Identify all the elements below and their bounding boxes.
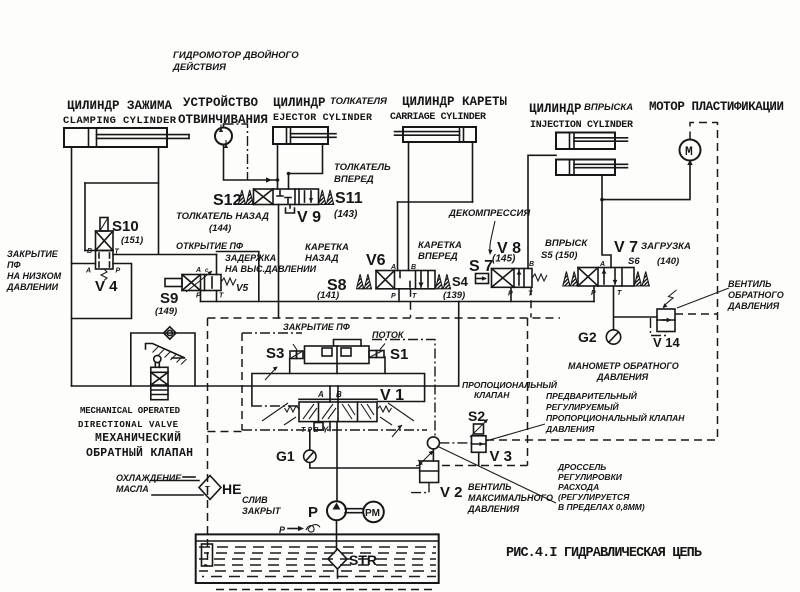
svg-text:ДРОССЕЛЬ: ДРОССЕЛЬ	[557, 462, 606, 472]
svg-text:КЛАПАН: КЛАПАН	[474, 390, 510, 400]
label: манометр обратного давления	[568, 361, 679, 382]
wire: pilot center drain	[336, 364, 338, 374]
svg-text:ЗАКРЫТИЕ: ЗАКРЫТИЕ	[7, 249, 59, 259]
svg-text:ПРОПОЦИОНАЛЬНЫЙ: ПРОПОЦИОНАЛЬНЫЙ	[462, 379, 558, 390]
svg-text:S10: S10	[112, 218, 139, 235]
svg-text:ПОТОК: ПОТОК	[372, 330, 405, 340]
svg-text:S2: S2	[468, 408, 485, 424]
wire: V4 B to frame	[85, 250, 96, 252]
motor M circle	[680, 140, 701, 161]
wire: riser joining P line to V1 line	[458, 302, 460, 387]
svg-text:B: B	[314, 427, 319, 434]
svg-text:A: A	[599, 261, 605, 268]
svg-text:НА НИЗКОМ: НА НИЗКОМ	[7, 271, 62, 281]
label: каретка назад	[305, 242, 349, 264]
throttle slash on drain dash-dot	[392, 425, 402, 437]
gauge G1	[304, 450, 316, 462]
pilot valve body	[305, 346, 370, 364]
svg-text:ВПЕРЕД: ВПЕРЕД	[418, 251, 458, 262]
svg-text:ЦИЛИНДР: ЦИЛИНДР	[529, 102, 582, 116]
svg-text:В ПРЕДЕЛАХ 0,8ММ): В ПРЕДЕЛАХ 0,8ММ)	[558, 502, 645, 512]
hydromotor circle	[215, 125, 232, 149]
svg-text:МАНОМЕТР ОБРАТНОГО: МАНОМЕТР ОБРАТНОГО	[568, 361, 679, 371]
svg-text:A: A	[85, 268, 91, 275]
svg-text:НА ВЫС.ДАВЛЕНИИ: НА ВЫС.ДАВЛЕНИИ	[225, 264, 317, 274]
label: толкатель вперед	[334, 162, 391, 185]
label: декомпрессия with arrow	[448, 208, 531, 255]
tank liquid dashes	[199, 547, 436, 577]
wire: V8 P riser	[510, 287, 512, 301]
solenoid S4 hatched	[436, 274, 451, 289]
svg-text:B: B	[529, 261, 534, 268]
label: слив закрыт	[242, 495, 282, 516]
wire: V4 T line to V5	[113, 254, 217, 256]
svg-text:ЗАКРЫТ: ЗАКРЫТ	[242, 506, 282, 516]
svg-text:(141): (141)	[317, 290, 339, 301]
svg-text:A: A	[317, 390, 324, 399]
labels S3 S1	[266, 345, 408, 363]
svg-text:B: B	[87, 248, 92, 255]
wire: V7 P riser	[593, 286, 595, 302]
svg-text:(РЕГУЛИРУЕТСЯ: (РЕГУЛИРУЕТСЯ	[558, 492, 630, 502]
svg-text:ЗАГРУЗКА: ЗАГРУЗКА	[641, 241, 691, 252]
svg-text:ЗАДЕРЖКА: ЗАДЕРЖКА	[225, 253, 276, 263]
svg-text:STR: STR	[349, 552, 377, 568]
svg-text:РАСХОДА: РАСХОДА	[558, 482, 599, 492]
svg-text:MECHANICAL OPERATED: MECHANICAL OPERATED	[80, 406, 181, 416]
svg-text:ВПРЫСК: ВПРЫСК	[545, 238, 588, 249]
svg-text:V 9: V 9	[297, 209, 321, 226]
svg-text:ДАВЛЕНИЯ: ДАВЛЕНИЯ	[545, 424, 595, 434]
svg-text:(140): (140)	[657, 256, 679, 267]
mech valve stack	[151, 367, 168, 399]
label: дроссель регулировки расхода	[557, 462, 645, 512]
svg-text:T: T	[219, 293, 224, 300]
label: охлаждение масла	[116, 473, 182, 494]
label: цилиндр толкателя / ejector cylinder	[273, 96, 388, 124]
wire: motor top dash-dot line	[224, 124, 248, 180]
svg-text:ЦИЛИНДР: ЦИЛИНДР	[273, 96, 326, 110]
svg-text:СЛИВ: СЛИВ	[242, 495, 268, 505]
svg-text:EJECTOR CYLINDER: EJECTOR CYLINDER	[273, 113, 372, 124]
leader line V3 to предварительный text	[486, 424, 545, 441]
svg-text:S4: S4	[452, 274, 469, 289]
wire: V5 bypass loop	[217, 252, 259, 302]
port labels B T A P of V4	[85, 248, 121, 275]
V2 drain dash-dot	[411, 483, 429, 493]
pump P	[327, 501, 346, 520]
svg-text:INJECTION CYLINDER: INJECTION CYLINDER	[530, 120, 633, 131]
svg-text:ДЕКОМПРЕССИЯ: ДЕКОМПРЕССИЯ	[448, 208, 531, 219]
поток bracket over pilot	[334, 340, 362, 347]
svg-text:(149): (149)	[155, 306, 177, 317]
svg-text:РЕГУЛИРОВКИ: РЕГУЛИРОВКИ	[558, 472, 623, 482]
svg-text:(151): (151)	[121, 235, 143, 246]
svg-text:(143): (143)	[334, 209, 358, 220]
label: цилиндр кареты / carriage cylinder	[390, 95, 508, 123]
clamping cylinder piston rod	[97, 135, 190, 139]
ejector cylinder body	[273, 127, 336, 144]
svg-text:ЦИЛИНДР ЗАЖИМА: ЦИЛИНДР ЗАЖИМА	[67, 99, 173, 113]
svg-text:МАСЛА: МАСЛА	[116, 484, 149, 494]
svg-text:P: P	[308, 504, 318, 521]
dashed manifold left edge	[207, 318, 209, 566]
svg-text:P: P	[391, 293, 396, 300]
svg-text:V 1: V 1	[380, 387, 404, 404]
carriage mount frame	[398, 142, 473, 271]
svg-text:S5 (150): S5 (150)	[541, 250, 577, 261]
labels V7 S6 (140) загрузка впрыск S5 (150)	[541, 238, 691, 297]
wire: A/B line to proportional valve	[72, 385, 459, 387]
tank weir box	[202, 544, 213, 566]
svg-text:ВПРЫСКА: ВПРЫСКА	[584, 102, 633, 113]
clamping cylinder body	[64, 128, 167, 147]
ground dashes below tank	[216, 589, 437, 591]
label: гидромотор двойного действия	[172, 49, 299, 73]
svg-text:КАРЕТКА: КАРЕТКА	[418, 240, 462, 251]
wire: V6 T riser dashed	[410, 289, 412, 318]
valve V1 body	[299, 402, 377, 422]
wire: pump suction	[336, 520, 338, 549]
svg-text:Т: Т	[205, 485, 210, 494]
injection cylinder upper	[556, 133, 628, 150]
solenoid S7	[476, 274, 489, 284]
svg-text:ТОЛКАТЕЛЬ НАЗАД: ТОЛКАТЕЛЬ НАЗАД	[176, 211, 269, 222]
V1 bottom port box TPBY	[301, 423, 330, 435]
label: вентиль обратного давления	[727, 279, 784, 311]
svg-text:T: T	[617, 290, 622, 297]
svg-text:V 4: V 4	[95, 278, 118, 295]
roller plunger	[154, 355, 161, 367]
V1 top cap line	[299, 398, 377, 400]
wire: main pressure line P	[201, 301, 595, 303]
wire: V1 P riser to pump	[336, 422, 338, 502]
svg-text:ПРЕДВАРИТЕЛЬНЫЙ: ПРЕДВАРИТЕЛЬНЫЙ	[546, 390, 638, 401]
V2 body	[420, 461, 439, 483]
dashed jog at manifold left	[208, 431, 243, 433]
solenoid S12 hatched	[238, 190, 253, 205]
label S10 (151) V4	[95, 218, 143, 295]
leader line to вентиль обратного давления	[677, 288, 729, 308]
svg-text:T: T	[412, 293, 417, 300]
label: закрытие ПФ на низком давлении	[6, 249, 62, 292]
label: пропоциональный клапан	[462, 379, 558, 400]
labels S7 V8 (145) ports	[469, 240, 534, 298]
label: цилиндр зажима / clamping cylinder	[63, 99, 177, 127]
svg-text:S1: S1	[390, 346, 408, 363]
valve V8 spring	[532, 274, 547, 281]
svg-text:РЕГУЛИРУЕМЫЙ: РЕГУЛИРУЕМЫЙ	[546, 401, 620, 412]
leader line V2 to дроссель text	[437, 446, 556, 503]
valve V4 spring	[101, 269, 107, 281]
V1 springs	[262, 403, 414, 425]
svg-text:ТОЛКАТЕЛЬ: ТОЛКАТЕЛЬ	[334, 162, 391, 173]
svg-text:B: B	[336, 390, 342, 399]
dashed drain line to V2	[442, 465, 528, 467]
solenoid S1	[369, 344, 385, 358]
motor PM	[363, 502, 384, 523]
svg-text:S3: S3	[266, 345, 284, 362]
solenoid S5 hatched	[563, 272, 578, 287]
svg-text:ОБРАТНОГО: ОБРАТНОГО	[728, 290, 784, 300]
clamping cylinder frame box	[72, 147, 159, 386]
valve V5 spring	[221, 278, 236, 285]
label: механический обратный клапан	[86, 431, 193, 460]
wire: pilot left foot with throttle	[252, 359, 385, 406]
solenoid S2	[470, 419, 488, 437]
wire: branch to motor	[602, 162, 690, 200]
label: mechanical operated directional valve	[78, 406, 181, 430]
tank symbol below V9	[286, 205, 295, 214]
wire: V8 B riser to injection cylinder	[528, 155, 556, 268]
svg-text:ДАВЛЕНИЯ: ДАВЛЕНИЯ	[727, 301, 780, 311]
svg-text:НАЗАД: НАЗАД	[305, 253, 339, 264]
svg-text:ВЕНТИЛЬ: ВЕНТИЛЬ	[728, 279, 772, 289]
label: цилиндр впрыска / injection cylinder	[529, 102, 633, 131]
svg-text:M: M	[685, 144, 693, 159]
check valve diamond	[164, 327, 176, 339]
labels S9 (149) V5 and ports	[155, 267, 249, 317]
dashed manifold right edge	[527, 318, 529, 466]
solenoid S8 hatched	[357, 274, 372, 289]
wire: V1 T drain to gauge G1	[309, 430, 311, 450]
svg-text:(144): (144)	[209, 223, 231, 234]
svg-text:V 7: V 7	[614, 239, 638, 256]
svg-text:ДЕЙСТВИЯ: ДЕЙСТВИЯ	[172, 61, 227, 73]
label: задержка на выс.давлении	[225, 253, 317, 274]
V2 pilot circle	[427, 437, 439, 461]
svg-text:CLAMPING CYLINDER: CLAMPING CYLINDER	[63, 115, 177, 127]
svg-text:P: P	[116, 268, 121, 275]
svg-text:G2: G2	[578, 329, 597, 345]
svg-text:ГИДРОМОТОР ДВОЙНОГО: ГИДРОМОТОР ДВОЙНОГО	[173, 49, 299, 61]
tank rectangle	[196, 534, 439, 583]
svg-text:ДАВЛЕНИЯ: ДАВЛЕНИЯ	[596, 372, 649, 382]
labels S12 V9 S11 (143)	[213, 190, 363, 226]
svg-text:G1: G1	[276, 448, 295, 464]
labels V6 S8 (141) S4 (139)	[317, 252, 469, 301]
svg-text:РИС.4.I ГИДРАВЛИЧЕСКАЯ ЦЕПЬ: РИС.4.I ГИДРАВЛИЧЕСКАЯ ЦЕПЬ	[506, 546, 702, 561]
svg-text:ТОЛКАТЕЛЯ: ТОЛКАТЕЛЯ	[330, 96, 388, 107]
wire: cooler inlet/outlet	[152, 477, 203, 495]
svg-text:B: B	[411, 264, 416, 271]
wire: G1 to V2 line	[310, 463, 420, 469]
coupling shaft	[345, 509, 363, 513]
wire: injection bottom riser to V7	[602, 175, 611, 268]
carriage cylinder body	[395, 127, 477, 142]
wire: V4 P loop	[72, 264, 132, 319]
dash-dot link to V3	[439, 442, 471, 444]
svg-text:УСТРОЙСТВО: УСТРОЙСТВО	[183, 95, 259, 110]
svg-text:ЗАКРЫТИЕ ПФ: ЗАКРЫТИЕ ПФ	[283, 322, 350, 332]
svg-text:ВЕНТИЛЬ: ВЕНТИЛЬ	[468, 482, 512, 492]
wire: pilot right foot	[378, 357, 425, 402]
label: вентиль максимального давления	[467, 482, 553, 514]
svg-text:CARRIAGE CYLINDER: CARRIAGE CYLINDER	[390, 112, 486, 123]
cooler HE diamond	[199, 476, 221, 500]
svg-text:ДАВЛЕНИЯ: ДАВЛЕНИЯ	[467, 504, 520, 514]
valve V8 body	[492, 269, 533, 288]
svg-text:S 7: S 7	[469, 258, 493, 275]
V2 relief arrow	[416, 451, 434, 467]
svg-text:НЕ: НЕ	[222, 481, 241, 497]
solenoid S11 hatched	[319, 190, 334, 205]
svg-text:S6: S6	[628, 256, 640, 267]
label: предварительный регулируемый пропорциональный клапан давления	[545, 390, 685, 434]
V3 body	[472, 436, 487, 453]
svg-text:T: T	[301, 427, 306, 434]
svg-text:ОХЛАЖДЕНИЕ: ОХЛАЖДЕНИЕ	[116, 473, 182, 483]
svg-text:S12: S12	[213, 192, 242, 209]
svg-text:ПФ: ПФ	[7, 260, 21, 270]
back-pressure valve V14	[651, 290, 677, 336]
gauge G2	[606, 330, 620, 344]
svg-text:PM: PM	[365, 508, 380, 519]
wire: V8 T riser dashed	[530, 287, 532, 317]
labels A B V1	[317, 387, 404, 404]
solenoid S10	[100, 218, 108, 232]
wire: motor bottom to valve V9	[224, 145, 278, 181]
svg-text:V 2: V 2	[440, 484, 463, 501]
valve V6 body	[376, 271, 435, 289]
solenoid S9 plain	[165, 279, 182, 287]
solenoid S6 hatched	[634, 272, 649, 287]
svg-text:КАРЕТКА: КАРЕТКА	[305, 242, 349, 253]
P arrow drain symbol	[279, 525, 320, 535]
svg-text:DIRECTIONAL VALVE: DIRECTIONAL VALVE	[78, 420, 179, 430]
wire: ejector right port to V9 B	[289, 144, 323, 189]
label: толкатель назад (144)	[176, 211, 269, 234]
strainer STR	[328, 549, 347, 578]
svg-text:V 3: V 3	[490, 448, 513, 465]
wire: V6 P riser	[398, 289, 400, 302]
svg-text:МЕХАНИЧЕСКИЙ: МЕХАНИЧЕСКИЙ	[95, 431, 181, 445]
solenoid S3	[290, 344, 303, 359]
valve V4 body	[96, 231, 114, 269]
svg-text:ВПЕРЕД: ВПЕРЕД	[334, 174, 374, 185]
valve V5 body	[182, 271, 221, 292]
svg-text:ОТКРЫТИЕ ПФ: ОТКРЫТИЕ ПФ	[176, 241, 243, 251]
wire: V1 Y drain	[329, 422, 331, 431]
valve V7 body	[578, 268, 634, 287]
svg-text:ОБРАТНЫЙ КЛАПАН: ОБРАТНЫЙ КЛАПАН	[86, 446, 193, 460]
svg-text:ДАВЛЕНИИ: ДАВЛЕНИИ	[6, 282, 59, 292]
svg-text:S9: S9	[160, 290, 178, 307]
dashed manifold top edge	[208, 317, 561, 319]
wire: V5 P T drains	[201, 291, 217, 302]
injection cylinder lower	[556, 160, 628, 176]
arrow on motor line	[266, 177, 272, 182]
svg-text:V 14: V 14	[653, 335, 681, 350]
svg-text:A: A	[195, 267, 201, 274]
wire: V4 A line	[72, 263, 96, 265]
wire: V7 T to V14 and G2	[614, 286, 658, 330]
wire: V1 A B risers	[330, 386, 338, 402]
svg-text:МАКСИМАЛЬНОГО: МАКСИМАЛЬНОГО	[468, 493, 553, 503]
svg-text:S11: S11	[335, 190, 363, 207]
cam ramp with hatching	[146, 344, 187, 365]
wire: V14 to dashed boundary	[675, 313, 718, 315]
valve V9 body	[254, 172, 319, 205]
svg-text:ЦИЛИНДР КАРЕТЫ: ЦИЛИНДР КАРЕТЫ	[402, 95, 508, 109]
mech valve frame box	[131, 333, 195, 386]
wire: ejector left port to V9	[277, 144, 279, 189]
dashed line from motor to right edge	[690, 123, 718, 440]
wire: V3 drain	[478, 452, 480, 465]
arrow into motor	[687, 160, 693, 165]
dashed drain line V3 to right boundary	[486, 439, 718, 441]
wire: V9 P riser	[278, 205, 280, 319]
svg-text:ПРОПОРЦИОНАЛЬНЫЙ КЛАПАН: ПРОПОРЦИОНАЛЬНЫЙ КЛАПАН	[546, 412, 685, 423]
wire: V5 A drop	[216, 255, 218, 275]
svg-text:(139): (139)	[443, 290, 465, 301]
svg-text:V5: V5	[236, 283, 249, 294]
svg-text:(145): (145)	[492, 254, 516, 265]
dash-dot inner box	[242, 333, 435, 437]
label: каретка вперед	[418, 240, 462, 262]
label: устройство отвинчивания	[178, 95, 268, 127]
svg-text:A: A	[390, 264, 396, 271]
svg-text:V6: V6	[366, 252, 386, 269]
svg-text:c: c	[205, 268, 209, 274]
svg-text:МОТОР ПЛАСТИФИКАЦИИ: МОТОР ПЛАСТИФИКАЦИИ	[649, 100, 784, 114]
